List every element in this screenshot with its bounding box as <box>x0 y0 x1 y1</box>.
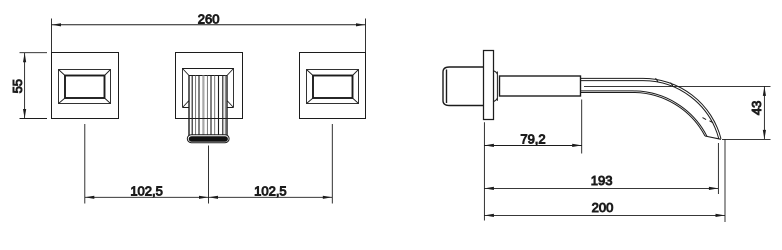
spout column side edges <box>189 76 227 137</box>
spout curve tick marks <box>656 78 714 123</box>
spout tip cut <box>705 136 721 139</box>
dim 200 extension line <box>724 139 726 222</box>
dim 79,2 line <box>484 145 581 147</box>
dim 43 bottom extension line <box>722 138 771 140</box>
svg-text:200: 200 <box>592 200 614 215</box>
spout column top edge <box>189 75 227 77</box>
dim 43 line <box>763 86 765 139</box>
dim 260 line <box>52 24 366 26</box>
dim 55 line <box>24 53 26 119</box>
spout outlet capsule black fill <box>189 136 228 142</box>
dim 193 extension line <box>717 143 719 194</box>
left handle inner rect <box>65 76 105 99</box>
dim 43 arrows <box>763 86 766 96</box>
spout column center shading band <box>202 76 204 137</box>
side view: wall flange <box>484 51 494 120</box>
dim 55 extension lines <box>20 53 48 119</box>
dim 102,5 line <box>85 196 332 198</box>
svg-text:102,5: 102,5 <box>130 183 163 198</box>
right handle bevel outer rect <box>307 70 359 104</box>
dim 79,2 arrows <box>484 144 494 147</box>
collar transition top <box>493 71 497 75</box>
spout tube outer bottom line <box>581 93 706 137</box>
collar base edge <box>496 72 498 101</box>
knob front face line <box>446 70 448 104</box>
center square plate outline (drawn over column) <box>176 53 243 119</box>
spout tube inner top line <box>581 81 719 139</box>
svg-text:55: 55 <box>10 79 25 93</box>
dim 200 arrows <box>484 214 494 217</box>
dim 200 line <box>484 214 725 216</box>
dim 193 arrows <box>484 187 494 190</box>
spout column white mask <box>189 76 227 137</box>
dim 102,5 arrows <box>85 196 95 199</box>
svg-text:193: 193 <box>591 173 613 188</box>
right handle inner rect <box>313 76 353 99</box>
front view: right handle square plate <box>300 53 366 119</box>
dim 102,5 extension lines <box>85 124 332 204</box>
spout column inner vertical lines dark <box>192 76 223 137</box>
side view: handle knob <box>443 67 484 106</box>
center escutcheon chamfer diagonals <box>183 69 234 108</box>
front view: left handle square plate <box>52 53 119 119</box>
dim 79,2 extension lines <box>484 100 581 221</box>
spout tube inner bottom line <box>581 91 708 136</box>
dim 193 line <box>484 187 718 189</box>
dim 260 arrows <box>52 23 62 26</box>
svg-text:102,5: 102,5 <box>254 183 287 198</box>
dim 260 extension lines <box>52 19 366 53</box>
dim 55 arrows <box>23 53 26 63</box>
spout column inner vertical lines light <box>196 76 226 137</box>
spout tube outer top line <box>581 78 722 138</box>
svg-text:43: 43 <box>749 101 764 115</box>
svg-text:260: 260 <box>198 12 220 27</box>
dim 43 axis extension line <box>584 85 771 87</box>
spout outlet capsule outline <box>187 135 229 143</box>
svg-text:79,2: 79,2 <box>520 131 545 146</box>
left handle chamfer diagonals <box>59 70 111 104</box>
collar transition bottom <box>493 98 497 102</box>
front view: center spout escutcheon bevel <box>183 69 234 108</box>
left handle bevel outer rect <box>59 70 111 104</box>
right handle chamfer diagonals <box>307 70 359 104</box>
spout base cylinder <box>500 76 581 96</box>
